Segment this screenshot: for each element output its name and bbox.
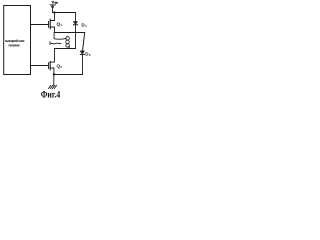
svg-text:1: 1 (85, 24, 87, 28)
wire Vcc down (52, 7, 54, 13)
svg-text:пв: пв (55, 2, 59, 5)
wire bottom rail (54, 74, 83, 76)
control block text (5, 39, 24, 47)
wire node A rail (Q1 source to D2 column) (55, 33, 85, 51)
Vcc supply label (52, 0, 59, 5)
Vcc terminal dot (51, 5, 54, 8)
wire gate1 from box to Q1 (31, 24, 49, 26)
svg-text:УПРАВЛЕНИЯ: УПРАВЛЕНИЯ (9, 43, 20, 47)
label D1 (81, 23, 87, 29)
junction dot source Q2 (53, 73, 55, 75)
transistor Q1 (49, 13, 55, 33)
label D2 (85, 52, 91, 58)
wire to ground (53, 75, 55, 86)
transistor Q2 (49, 62, 55, 75)
ground (49, 85, 57, 88)
wire node B rail (coil bottom / D1 / Q2 drain) (55, 48, 76, 50)
junction dot drain Q1 (53, 11, 55, 13)
label Q2 (57, 63, 63, 69)
wire top rail to D1 (53, 13, 76, 22)
reference numeral 3 (49, 41, 52, 46)
diode D2 (80, 51, 84, 55)
svg-text:ВЫХОДНОЙ БЛОК: ВЫХОДНОЙ БЛОК (5, 39, 24, 43)
winding loops (66, 37, 70, 48)
svg-text:Фиг.4: Фиг.4 (41, 90, 61, 100)
Vcc terminal bar (50, 4, 55, 6)
wire D2 cathode down (82, 54, 84, 74)
svg-text:1: 1 (60, 23, 62, 27)
svg-text:2: 2 (89, 53, 91, 57)
control block box (4, 6, 31, 75)
label Q1 (57, 22, 63, 28)
wire Q2 drain up (54, 49, 56, 63)
wire gate2 from box to Q2 (31, 65, 49, 67)
winding lead-in from node A (54, 33, 66, 40)
winding exit leg (68, 47, 70, 49)
wavy leader line (51, 42, 61, 45)
wire D1 cathode down to node B (75, 25, 77, 49)
svg-text:2: 2 (60, 65, 62, 69)
diode D1 (73, 22, 77, 25)
